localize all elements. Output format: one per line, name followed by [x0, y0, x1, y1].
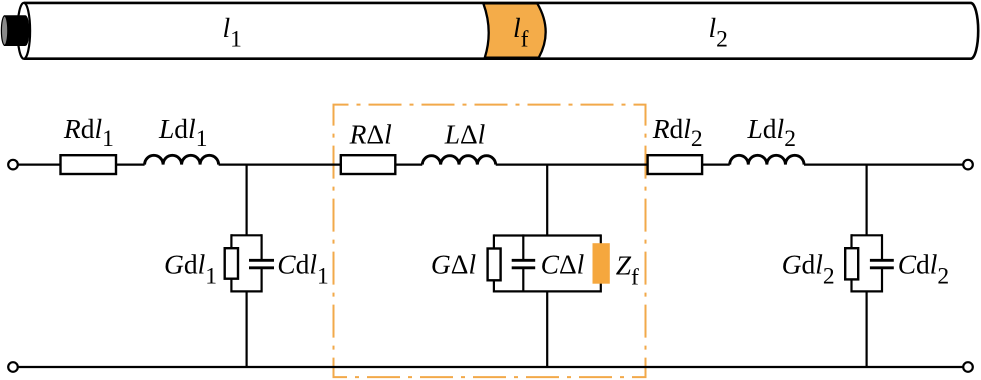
svg-text:Gdl1: Gdl1 [164, 248, 217, 289]
svg-text:GΔl: GΔl [431, 248, 477, 279]
inductor LΔl [422, 156, 495, 165]
terminal top-right [963, 160, 973, 170]
capacitor Cdl1 bottom plate [249, 266, 274, 269]
wire G2 upper [493, 234, 495, 249]
cable core connector [5, 16, 29, 45]
shunt feed wire 3 upper [865, 165, 867, 236]
svg-text:Ldl2: Ldl2 [747, 113, 796, 152]
svg-text:Cdl1: Cdl1 [277, 248, 328, 289]
wire G2 lower [493, 280, 495, 293]
resistor Rdl1 [61, 155, 117, 174]
wire G3 upper [850, 234, 852, 249]
capacitor Cdl2 bottom plate [870, 266, 894, 269]
wire C1 upper [261, 234, 263, 259]
capacitor Cdl1 top plate [249, 259, 274, 262]
top wire segment C [496, 164, 730, 166]
inductor Ldl1 [145, 155, 219, 164]
svg-text:Ldl1: Ldl1 [158, 113, 207, 152]
shunt feed wire 1 upper [246, 165, 248, 236]
bottom wire [18, 366, 963, 368]
connector gray end cap [1, 16, 7, 45]
wire G3 lower [850, 279, 852, 293]
svg-text:RΔl: RΔl [349, 119, 393, 150]
svg-text:Cdl2: Cdl2 [898, 248, 949, 289]
shunt block 2 bottom bar [494, 290, 601, 292]
conductance Gdl2 [845, 248, 858, 279]
terminal bottom-left [8, 362, 18, 372]
top wire segment D [804, 164, 963, 166]
wire G1 upper [230, 234, 232, 249]
svg-text:Rdl2: Rdl2 [652, 113, 703, 152]
wire C3 lower [881, 269, 883, 293]
fault band lf [483, 3, 545, 57]
capacitor CΔl top plate [512, 259, 536, 262]
fault-section dash-dot boundary box [334, 105, 646, 378]
cable left end face [18, 3, 31, 59]
shunt block 1 top bar [231, 234, 261, 236]
top wire segment A [18, 164, 145, 166]
wire C2 lower [522, 269, 524, 293]
wire C3 upper [881, 234, 883, 259]
wire G1 lower [230, 278, 232, 293]
resistor RΔl [341, 155, 396, 174]
shunt block 3 bottom bar [852, 290, 883, 292]
wire Zf branch [600, 234, 602, 292]
capacitor Cdl2 top plate [870, 259, 894, 262]
shunt feed wire 1 lower [246, 291, 248, 367]
capacitor CΔl bottom plate [512, 266, 536, 269]
wire C1 lower [261, 269, 263, 293]
shunt block 3 top bar [852, 234, 883, 236]
conductance Gdl1 [225, 248, 238, 279]
terminal top-left [8, 160, 18, 170]
wire C2 upper [522, 234, 524, 259]
svg-text:Gdl2: Gdl2 [782, 248, 835, 289]
inductor Ldl2 [730, 155, 804, 164]
cable body [24, 3, 978, 59]
resistor Rdl2 [648, 155, 703, 174]
shunt feed wire 2 lower [546, 291, 548, 367]
shunt block 2 top bar [494, 234, 601, 236]
conductance GΔl [488, 249, 501, 281]
shunt feed wire 3 lower [865, 291, 867, 367]
shunt feed wire 2 upper [546, 165, 548, 236]
svg-text:Zf: Zf [616, 250, 639, 291]
fault impedance Zf [593, 243, 610, 284]
svg-text:CΔl: CΔl [541, 248, 585, 279]
svg-text:Rdl1: Rdl1 [63, 113, 114, 152]
shunt block 1 bottom bar [231, 290, 261, 292]
top wire segment B [219, 164, 423, 166]
terminal bottom-right [963, 362, 973, 372]
svg-text:LΔl: LΔl [444, 119, 486, 150]
